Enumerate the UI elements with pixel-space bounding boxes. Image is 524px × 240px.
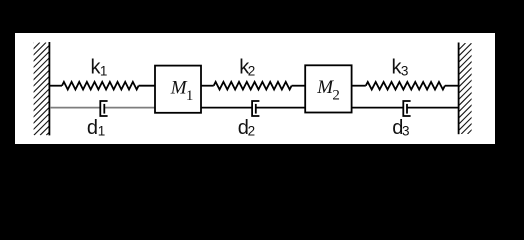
svg-text:1: 1 xyxy=(186,88,194,104)
right wall hatching xyxy=(368,43,524,134)
mass M2 xyxy=(305,65,351,112)
spring k3 xyxy=(352,85,366,87)
damper d1 wire left (grey) xyxy=(50,107,100,109)
damper d3 wire right xyxy=(407,107,458,109)
svg-text:1: 1 xyxy=(100,64,108,79)
damper d2 wire right xyxy=(256,107,306,109)
damper d1 piston xyxy=(103,104,105,114)
svg-text:2: 2 xyxy=(248,124,256,139)
svg-text:d: d xyxy=(87,117,98,139)
damper d2 wire left xyxy=(201,107,252,109)
damper d3 piston xyxy=(406,104,408,114)
svg-text:3: 3 xyxy=(402,124,410,139)
svg-text:2: 2 xyxy=(248,64,256,79)
left wall hatching xyxy=(0,43,145,136)
damper d1 body xyxy=(100,101,107,116)
white diagram panel xyxy=(15,33,495,144)
spring k2 xyxy=(201,85,214,87)
right wall face line xyxy=(458,43,460,135)
spring k1 xyxy=(50,85,62,87)
mass M1 xyxy=(155,66,201,113)
damper d2 body xyxy=(252,101,259,116)
svg-text:3: 3 xyxy=(401,64,409,79)
svg-text:1: 1 xyxy=(98,124,106,139)
svg-text:2: 2 xyxy=(332,88,340,104)
damper d3 body xyxy=(403,101,410,116)
damper d2 piston xyxy=(255,104,257,114)
damper d3 wire left xyxy=(352,107,404,109)
damper d1 wire right (grey) xyxy=(104,107,155,109)
left wall face line xyxy=(48,42,50,135)
